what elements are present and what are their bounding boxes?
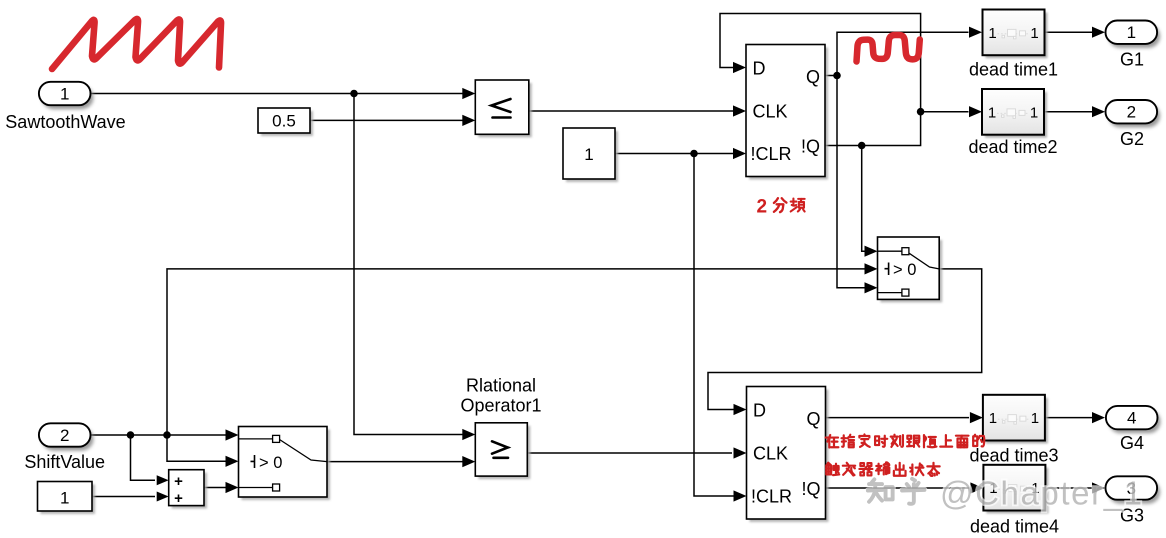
svg-text:D: D: [753, 58, 766, 78]
svg-text:1: 1: [988, 104, 996, 121]
svg-text:> 0: > 0: [893, 261, 916, 279]
arrowhead into sum in1: [157, 475, 169, 485]
arrowhead into LE in2: [462, 115, 475, 126]
svg-text:2: 2: [757, 197, 768, 218]
wire const 0.5 to LE in2: [310, 119, 463, 121]
svg-text:D: D: [753, 400, 766, 420]
wire ShiftValue branch to sum in1: [131, 435, 156, 480]
wire FF2 !Q to dead time4: [826, 487, 970, 489]
wire Q branch to switch1 in3: [837, 76, 865, 288]
node junction Q net: [833, 72, 841, 80]
svg-text:1: 1: [1127, 23, 1136, 42]
svg-text:1: 1: [584, 145, 593, 164]
svg-text:+: +: [174, 490, 183, 507]
svg-text:dead time4: dead time4: [970, 517, 1059, 537]
svg-text:ShiftValue: ShiftValue: [24, 452, 105, 472]
wire dead time2 to G2: [1044, 111, 1093, 113]
dead time2 subsystem block: [985, 92, 1047, 138]
switch block lower: [242, 430, 331, 501]
arrowhead into switch2 in2: [226, 456, 239, 467]
outport 4: [1109, 410, 1161, 433]
arrowhead into switch1 in2: [865, 263, 878, 274]
wire dead time4 to G3: [1045, 487, 1092, 489]
wire switch2 out to GE in2: [327, 461, 463, 463]
switch1 threshold label: [885, 263, 889, 276]
outport 3: [1109, 480, 1161, 503]
arrowhead into FF2 CLK: [734, 447, 747, 458]
node junction ShiftValue 1: [127, 431, 135, 439]
wire LE out to FF1 CLK: [529, 110, 735, 112]
inport 1: [42, 86, 94, 109]
svg-text:CLK: CLK: [753, 102, 788, 122]
node junction ShiftValue 2: [163, 431, 171, 439]
arrowhead into dead time3: [970, 412, 983, 423]
wire FF1 !Q feedback to D: [720, 14, 921, 146]
svg-text:1: 1: [60, 85, 69, 104]
dead time1 subsystem block: [986, 13, 1048, 59]
wire !CLR net down to FF2 !CLR: [694, 154, 735, 497]
svg-text:+: +: [174, 473, 183, 490]
svg-text:@Chapter_1: @Chapter_1: [940, 475, 1144, 512]
red annotation line2: [826, 463, 839, 475]
svg-text:G2: G2: [1120, 129, 1144, 149]
arrowhead into dead time4: [970, 482, 983, 493]
svg-text:Operator1: Operator1: [460, 396, 541, 416]
wire feedback branch to dead time2: [921, 111, 969, 113]
wire ShiftValue branch to switch2 in2: [167, 435, 227, 461]
svg-text:!Q: !Q: [801, 137, 820, 157]
switch2 threshold label: [251, 455, 255, 468]
relational operator LE block: [478, 83, 532, 137]
outport 1: [1109, 25, 1161, 48]
arrowhead into G3: [1092, 482, 1105, 493]
wire !Q branch to switch1 in1: [862, 146, 865, 252]
svg-text:SawtoothWave: SawtoothWave: [5, 112, 125, 132]
svg-text:Rlational: Rlational: [466, 376, 536, 396]
svg-text:> 0: > 0: [259, 454, 282, 472]
arrowhead into GE in2: [462, 456, 475, 467]
red annotation line1: [826, 435, 839, 447]
switch block upper: [881, 240, 943, 302]
wire ShiftValue to switch2 in1: [91, 434, 227, 436]
wire FF2 Q to dead time3: [826, 417, 970, 419]
arrowhead into switch2 in3: [226, 482, 239, 493]
arrowhead into FF1 CLK: [733, 105, 746, 116]
arrowhead into switch1 in3: [865, 282, 878, 293]
arrowhead into G1: [1092, 27, 1105, 38]
arrowhead into FF2 D: [734, 404, 747, 415]
node junction SawtoothWave: [350, 90, 358, 98]
svg-text:1: 1: [988, 25, 996, 42]
wire const 1b to sum in2: [92, 496, 155, 498]
arrowhead into dead time1: [969, 27, 982, 38]
svg-text:dead time2: dead time2: [968, 137, 1057, 157]
wire ShiftValue control to switch1 in2: [167, 269, 865, 435]
dead time4 subsystem block: [986, 468, 1048, 514]
svg-text:1: 1: [1031, 410, 1039, 427]
svg-text:2: 2: [1127, 103, 1136, 122]
arrowhead into switch2 in1: [226, 429, 239, 440]
D flip-flop 2 body: [750, 390, 829, 523]
svg-text:Q: Q: [806, 67, 820, 87]
arrowhead into LE in1: [462, 88, 475, 99]
constant block 0.5: [261, 111, 313, 136]
D flip-flop 1 body: [749, 48, 828, 180]
svg-text:2: 2: [60, 426, 69, 445]
wire sum out to switch2 in3: [204, 487, 227, 489]
arrowhead into G2: [1092, 106, 1105, 117]
svg-text:dead time1: dead time1: [969, 59, 1058, 79]
wire FF1 Q out stub: [826, 75, 838, 77]
svg-text:1: 1: [60, 489, 69, 508]
wire SawtoothWave branch to GE in1: [354, 94, 463, 435]
red sawtooth sketch: [52, 19, 221, 69]
svg-text:!Q: !Q: [801, 479, 820, 499]
arrowhead into switch1 in1: [865, 246, 878, 257]
svg-text:CLK: CLK: [753, 444, 788, 464]
svg-text:!CLR: !CLR: [751, 144, 792, 164]
wire SawtoothWave to LE in1: [91, 93, 463, 95]
arrowhead into FF2 !CLR: [734, 490, 747, 501]
constant block 1 lower: [41, 485, 96, 515]
svg-text:Q: Q: [806, 409, 820, 429]
arrowhead into FF1 !CLR: [733, 148, 746, 159]
arrowhead into GE in1: [462, 429, 475, 440]
arrowhead into dead time2: [969, 106, 982, 117]
node junction !CLR net: [690, 150, 698, 158]
svg-text:4: 4: [1127, 409, 1136, 428]
wire GE out to FF2 CLK: [527, 452, 732, 454]
inport 2: [42, 427, 94, 450]
wire dead time3 to G4: [1045, 417, 1092, 419]
svg-text:1: 1: [989, 410, 997, 427]
sum block: [172, 473, 207, 509]
node junction feedback to dead time2: [917, 108, 925, 116]
svg-text:1: 1: [1030, 104, 1038, 121]
svg-text:0.5: 0.5: [272, 112, 296, 131]
arrowhead into G4: [1092, 412, 1105, 423]
constant block 1 upper: [566, 131, 618, 182]
arrowhead into FF1 D: [733, 62, 746, 73]
svg-text:G4: G4: [1120, 433, 1144, 453]
svg-text:G1: G1: [1120, 49, 1144, 69]
watermark zhihu @Chapter_1: [868, 475, 1144, 512]
relational operator GE block: [478, 426, 530, 479]
dead time3 subsystem block: [986, 398, 1048, 444]
outport 2: [1109, 104, 1161, 127]
svg-text:dead time3: dead time3: [969, 446, 1058, 466]
red square wave sketch: [857, 35, 920, 62]
wire Q branch to dead time1: [837, 32, 969, 75]
wire const 1 to FF1 !CLR: [615, 153, 735, 155]
wire dead time1 to G1: [1045, 31, 1093, 33]
svg-text:1: 1: [1030, 25, 1038, 42]
arrowhead into sum in2: [157, 492, 169, 502]
node junction !Q net: [858, 142, 866, 150]
wire switch1 out to FF2 D: [708, 269, 982, 410]
svg-text:!CLR: !CLR: [751, 487, 792, 507]
